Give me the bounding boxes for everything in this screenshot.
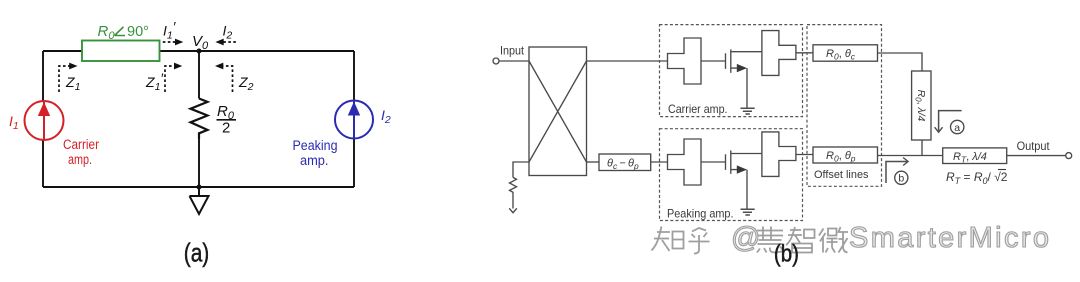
svg-text:(a): (a) bbox=[184, 238, 210, 268]
carrier output matching network bbox=[762, 31, 796, 76]
transistor Q2 source wire and down to ground bbox=[731, 170, 747, 209]
ground of carrier FET bbox=[741, 108, 755, 114]
svg-text:90°: 90° bbox=[127, 24, 149, 40]
wire: matching to gate bbox=[701, 161, 726, 163]
impedance marker Z1 (dashed corner + arrow right) bbox=[59, 63, 80, 93]
svg-text:Offset lines: Offset lines bbox=[814, 169, 869, 181]
svg-text:Output: Output bbox=[1017, 141, 1051, 153]
wire: coupler top-right to carrier matching bbox=[587, 60, 668, 62]
svg-text:b: b bbox=[898, 173, 904, 185]
wire: input to coupler bbox=[499, 60, 529, 62]
svg-text:amp.: amp. bbox=[300, 153, 329, 168]
svg-text:2: 2 bbox=[222, 120, 230, 137]
svg-text:amp.: amp. bbox=[68, 152, 92, 167]
impedance transformer box RT,lambda/4 bbox=[943, 148, 1007, 164]
input terminal bbox=[493, 58, 499, 64]
svg-text:Peaking: Peaking bbox=[293, 138, 338, 153]
svg-text:Carrier amp.: Carrier amp. bbox=[668, 102, 728, 116]
svg-text:a: a bbox=[954, 122, 960, 134]
current arrow I2 (dashed, leftward) bbox=[215, 23, 236, 46]
transistor Q2 drain wire bbox=[731, 153, 762, 155]
quadrature coupler box with X bbox=[529, 47, 587, 176]
ground symbol below bottom node bbox=[190, 187, 209, 214]
transistor Q1 channel bar bbox=[730, 49, 732, 72]
delay line box thetac - thetap bbox=[599, 154, 651, 171]
peaking output matching network bbox=[762, 132, 796, 177]
watermark CJK glyph hu bbox=[689, 228, 710, 254]
offset line box R0,thetap bbox=[813, 147, 878, 163]
wire: peaking output to offset line bbox=[796, 154, 813, 156]
wire: bottom horizontal bbox=[43, 186, 354, 188]
node V0 junction dot bbox=[197, 49, 202, 54]
watermark CJK glyph wei bbox=[819, 227, 848, 253]
wire: center vertical branch from V0 down through load bbox=[198, 51, 200, 187]
direction arrow (a) bbox=[939, 111, 962, 131]
transistor Q1 source wire and down to ground bbox=[731, 68, 747, 108]
transistor Q1 source arrow bbox=[737, 64, 747, 72]
carrier input matching network bbox=[668, 38, 702, 84]
svg-text:R0, λ/4: R0, λ/4 bbox=[913, 90, 927, 122]
peaking input matching network bbox=[668, 139, 702, 185]
direction arrow (b) bbox=[886, 162, 907, 184]
transistor Q1 (carrier FET) gate bar bbox=[725, 53, 727, 69]
quarter wave line box R0,lambda/4 (vertical) bbox=[912, 71, 931, 140]
offset line box R0,thetac bbox=[813, 45, 878, 61]
offset lines dashed box bbox=[807, 25, 882, 187]
output terminal bbox=[1066, 153, 1072, 159]
current source I2 (peaking, blue) bbox=[335, 101, 373, 139]
label R0/2 of load resistor bbox=[217, 103, 237, 137]
impedance marker Z1' (dashed corner + arrow right) bbox=[145, 63, 182, 93]
transistor Q2 channel bar bbox=[730, 150, 732, 173]
wire: R0thetac to corner and down bbox=[878, 53, 923, 71]
wire: junction row to RT box bbox=[878, 155, 943, 157]
wire: right vertical branch (peaking side) bbox=[353, 51, 355, 187]
wire: theta box to peaking matching bbox=[651, 161, 668, 163]
svg-text:Input: Input bbox=[500, 46, 525, 58]
ground of peaking FET bbox=[741, 209, 755, 215]
transistor Q1 drain wire bbox=[731, 51, 762, 53]
transmission line R0 angle 90 (green box) bbox=[82, 41, 160, 62]
circled a bbox=[951, 120, 964, 133]
transistor Q2 source arrow bbox=[737, 165, 747, 173]
watermark CJK glyph zhi2 bbox=[786, 227, 815, 253]
wire: coupler bottom-left to isolation resistor bbox=[513, 162, 529, 177]
wire: top horizontal from left corner to right corner through node V0 bbox=[43, 50, 354, 52]
wire: matching to gate bbox=[701, 60, 726, 62]
wire: coupler bottom-right to theta box bbox=[587, 161, 600, 163]
svg-text:Peaking amp.: Peaking amp. bbox=[667, 207, 734, 221]
watermark CJK glyph zhi1 bbox=[652, 227, 684, 252]
transistor Q2 (peaking FET) gate bar bbox=[725, 154, 727, 170]
current arrow I1' (dashed, rightward) bbox=[163, 19, 184, 46]
peaking amp dashed box bbox=[660, 129, 803, 221]
wire: carrier output to offset line bbox=[796, 52, 813, 54]
wire: left vertical branch (carrier side) bbox=[42, 51, 44, 187]
carrier amp dashed box bbox=[660, 25, 803, 117]
resistor R0/2 zigzag bbox=[191, 99, 208, 140]
svg-text:(b): (b) bbox=[774, 241, 799, 268]
watermark CJK glyph hui bbox=[757, 227, 783, 253]
impedance marker Z2 (dashed corner + arrow left) bbox=[215, 63, 254, 93]
isolation resistor zigzag bbox=[510, 177, 517, 208]
wire: lambda/4 box down to junction bbox=[921, 140, 923, 156]
svg-text:RT, λ/4: RT, λ/4 bbox=[953, 151, 987, 165]
svg-text:@: @ bbox=[731, 222, 760, 254]
circled b bbox=[895, 171, 908, 184]
sqrt overline bbox=[998, 169, 1006, 171]
bottom junction dot bbox=[197, 185, 202, 190]
wire: RT box to output terminal bbox=[1007, 155, 1066, 157]
label R0 angle 90deg (green) bbox=[98, 23, 149, 42]
ground arrow of isolation resistor bbox=[509, 208, 517, 212]
current source I1 (carrier, red) bbox=[25, 101, 64, 140]
svg-text:Carrier: Carrier bbox=[63, 137, 99, 152]
